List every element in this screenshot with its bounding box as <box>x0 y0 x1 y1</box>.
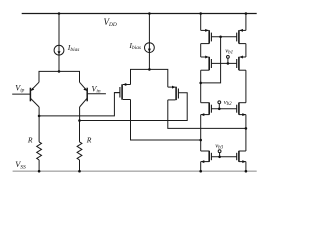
wire left column row2 drain <box>200 70 202 103</box>
wire left bias column <box>200 14 202 31</box>
transistor M6 (PMOS bias, v_b1 row right) <box>237 56 246 71</box>
transistor M7 (NMOS bias, v_b2 row left) <box>201 103 212 117</box>
junction R1-VSS <box>38 170 41 173</box>
transistor M5 (PMOS bias, v_b1 row left) <box>201 56 212 71</box>
svg-text:Vin: Vin <box>92 84 101 94</box>
transistor Q1 (PNP input, V_ip) <box>12 82 39 107</box>
transistor M10 (NMOS bias, v_b3 row right) <box>237 151 246 163</box>
VDD rail <box>22 13 257 15</box>
junction Q2 collector node <box>78 119 81 122</box>
wire Q1 collector <box>38 107 40 116</box>
transistor Q2 (PNP input, V_in, mirrored) <box>80 82 106 107</box>
wire Q2 collector <box>79 107 81 121</box>
junction left column VSS <box>199 170 202 173</box>
svg-text:R: R <box>27 136 33 145</box>
port v_b1 <box>227 56 230 59</box>
transistor M8 (NMOS bias, v_b2 row right) <box>237 103 246 117</box>
junction v_b2 <box>218 108 221 111</box>
VSS rail <box>13 170 257 172</box>
transistor M2 (PMOS, 2nd stage right, mirrored) <box>168 86 179 101</box>
junction left column mid <box>199 139 202 142</box>
wire right column row1-row2 <box>245 44 247 57</box>
junction VDD-Ibias1 <box>58 12 61 15</box>
wire current source 2 drop <box>148 14 150 70</box>
transistor M3 (PMOS bias, row1 left) <box>201 29 212 44</box>
wire v_b2 gate bus <box>211 108 236 110</box>
svg-text:vb2: vb2 <box>224 99 232 107</box>
wire current source 1 drop <box>58 14 60 72</box>
wire v_b1 gate bus <box>211 62 236 64</box>
transistor M1 (PMOS, 2nd stage left) <box>114 83 130 100</box>
wire left column row1-row2 <box>200 44 202 57</box>
resistor R (left) <box>37 116 42 171</box>
junction right column mid <box>245 127 248 130</box>
wire tail1 <box>39 71 80 82</box>
transistor M4 (PMOS bias, row1 right) <box>237 29 246 44</box>
wire M2 drain to right column <box>168 100 246 128</box>
junction Q1 collector node <box>38 115 41 118</box>
junction VDD-left column <box>199 12 202 15</box>
wire node B to M2 gate <box>80 93 188 121</box>
wire right bias column <box>245 14 247 31</box>
port v_b2 <box>218 101 221 104</box>
svg-text:Ibias: Ibias <box>128 41 141 51</box>
wire right column row2-row3 <box>245 70 247 103</box>
junction v_b1 <box>227 62 230 65</box>
wire row1 gate bus <box>211 36 236 38</box>
svg-text:Ibias: Ibias <box>67 43 80 53</box>
wire left column to VSS <box>200 162 202 172</box>
wire v_b3 gate bus <box>211 156 236 158</box>
current source I_bias2 (right) <box>145 43 155 53</box>
junction diode node <box>199 82 202 85</box>
transistor M9 (NMOS bias, v_b3 row left) <box>201 151 212 163</box>
resistor R (right) <box>77 121 82 172</box>
junction VDD-Ibias2 <box>148 12 151 15</box>
junction tail2 <box>148 68 151 71</box>
wire right column row3 source down <box>245 115 247 151</box>
svg-text:vb1: vb1 <box>225 47 233 55</box>
junction tail1 <box>58 70 61 73</box>
svg-text:VSS: VSS <box>15 160 26 170</box>
wire tail2 <box>131 69 168 87</box>
svg-text:VDD: VDD <box>104 17 117 28</box>
svg-text:vb3: vb3 <box>215 143 223 151</box>
wire left column row3 source down <box>200 115 202 151</box>
junction v_b3 <box>218 156 221 159</box>
current source I_bias (left) <box>54 45 64 55</box>
svg-text:Vip: Vip <box>15 84 24 94</box>
wire node A to M1 gate <box>39 93 119 116</box>
wire M1 drain to left column <box>131 100 201 141</box>
junction right column VSS <box>245 170 248 173</box>
junction row1 gates <box>219 36 222 39</box>
wire right column to VSS <box>245 162 247 172</box>
svg-text:R: R <box>86 136 92 145</box>
wire diode connection to row1 gates <box>201 37 221 83</box>
junction VDD-right column <box>245 12 248 15</box>
port v_b3 <box>218 150 221 153</box>
junction R2-VSS <box>78 170 81 173</box>
